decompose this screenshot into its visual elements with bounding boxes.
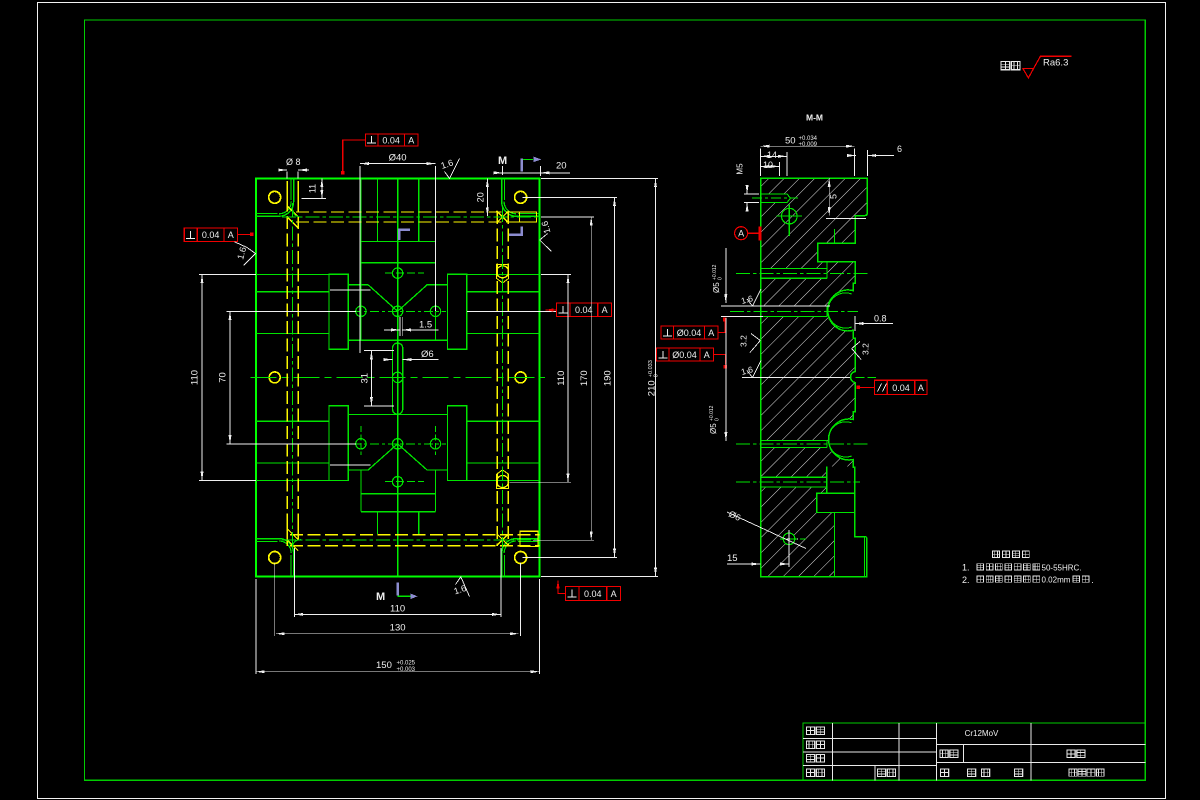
top pocket outline	[361, 178, 436, 340]
dim 110 right	[510, 274, 572, 482]
corner block inner doubles	[256, 178, 540, 576]
svg-text:Ø 8: Ø 8	[286, 157, 301, 167]
dim M5	[736, 163, 760, 211]
svg-text:1.5: 1.5	[419, 319, 432, 330]
svg-text:Ø6: Ø6	[421, 349, 434, 360]
dim 110 left	[190, 274, 256, 480]
center circle on capsule	[392, 372, 402, 382]
horizontal center line	[251, 376, 546, 378]
center slot capsule	[393, 343, 403, 414]
corner hole TL	[269, 191, 281, 203]
svg-text:50-55HRC.: 50-55HRC.	[1042, 563, 1082, 572]
svg-text:70: 70	[218, 372, 229, 383]
svg-text:+0.034: +0.034	[799, 136, 818, 142]
center line row1	[736, 272, 868, 274]
svg-text:0.8: 0.8	[874, 314, 887, 324]
svg-text:A: A	[408, 136, 414, 146]
svg-text:M: M	[376, 591, 385, 603]
dim Ø8 top	[279, 157, 310, 178]
svg-text:15: 15	[727, 553, 738, 564]
hole row4	[761, 477, 827, 487]
roughness 3.2 sec right	[852, 342, 871, 360]
corner block BL	[256, 539, 294, 577]
circle row upper	[352, 273, 446, 329]
bottom pocket circle	[392, 477, 402, 487]
svg-text:A: A	[228, 230, 234, 240]
title block frame	[803, 723, 1145, 780]
hole row1	[761, 262, 827, 279]
corner hole TR	[515, 191, 527, 203]
svg-text:150: 150	[376, 660, 392, 671]
center line row2	[730, 310, 858, 312]
roughness 1.6 sec row2	[721, 289, 830, 306]
roughness 1.6 top	[440, 158, 460, 179]
left bar	[329, 274, 348, 349]
purple elbow right mid	[509, 226, 523, 236]
unhatched zone right of notch2	[827, 466, 855, 493]
interior horizontals right side	[467, 274, 540, 480]
dim 31	[360, 351, 394, 407]
svg-text:Cr12MoV: Cr12MoV	[965, 729, 999, 738]
svg-text:5: 5	[829, 194, 839, 199]
roughness 1.6 bottom	[453, 577, 470, 597]
svg-text:190: 190	[602, 370, 613, 386]
corner hole BL	[269, 552, 281, 564]
dim 1.5	[384, 317, 439, 336]
leader Ø6	[727, 509, 806, 549]
svg-text:M: M	[498, 155, 507, 167]
svg-text:3.2: 3.2	[739, 335, 749, 347]
svg-text:0.04: 0.04	[584, 589, 602, 599]
M5 center line	[752, 197, 798, 199]
dim 0.8	[855, 314, 893, 332]
svg-text:Ø5: Ø5	[709, 423, 718, 434]
gdt box right dia 1	[661, 326, 718, 339]
roughness 3.2 sec left	[739, 334, 761, 353]
svg-text:210: 210	[647, 380, 658, 396]
dim 50 top section	[761, 136, 855, 177]
datum A	[735, 227, 762, 241]
gdt box top	[341, 134, 418, 175]
svg-text:+0.009: +0.009	[799, 142, 818, 148]
svg-text:31: 31	[360, 373, 371, 384]
svg-text:0: 0	[654, 374, 660, 377]
hole M5	[761, 194, 791, 203]
roughness 1.6 right edge	[540, 220, 553, 252]
corner block TL	[256, 178, 294, 216]
svg-text:1.: 1.	[962, 563, 970, 573]
roughness 1.6 left edge	[235, 242, 256, 266]
nipple lower	[497, 476, 509, 488]
svg-text:2.: 2.	[962, 575, 970, 585]
svg-text:20: 20	[556, 161, 567, 172]
tech notes	[962, 551, 1094, 585]
junction X marks	[287, 206, 509, 551]
vertical center line	[397, 178, 399, 576]
dim Ø40	[360, 153, 435, 354]
gdt box right	[546, 303, 612, 316]
red leader to section box2	[714, 355, 726, 365]
title block labels	[807, 727, 1105, 777]
svg-text:+0.025: +0.025	[397, 661, 416, 667]
svg-text:50: 50	[785, 136, 796, 147]
channel centerline elbows	[293, 208, 301, 548]
section outline	[761, 178, 868, 577]
bottom pocket	[361, 444, 436, 534]
dim 11	[301, 178, 326, 198]
gdt box right dia 2	[657, 348, 714, 361]
flange slot boundary	[833, 229, 835, 243]
svg-text:.: .	[1091, 575, 1093, 585]
svg-text:110: 110	[190, 370, 201, 385]
surface note top right	[1001, 56, 1072, 78]
svg-text:130: 130	[390, 623, 406, 634]
dim 10 section	[761, 160, 780, 176]
svg-text:0.04: 0.04	[575, 305, 593, 315]
side hole right on centerline	[515, 372, 526, 383]
roughness 1.6 sec slot	[740, 361, 850, 378]
left bar lower	[329, 406, 348, 481]
dim Ø6 slot	[384, 349, 439, 360]
dim Ø5 lower	[709, 318, 726, 441]
svg-text:0.04: 0.04	[382, 136, 400, 146]
ejector hole circle	[780, 530, 806, 548]
svg-text:0.04: 0.04	[892, 383, 910, 393]
svg-text:A: A	[738, 229, 744, 239]
corner block BR	[502, 539, 540, 577]
dim 110 bottom	[294, 548, 501, 617]
corner hole BR	[515, 552, 527, 564]
channel plug top right	[519, 212, 536, 222]
slot center dash right	[856, 377, 876, 379]
cooling channel top pair (yellow dashed)	[287, 181, 539, 546]
gdt box left	[184, 228, 253, 242]
tab inner line	[864, 537, 866, 577]
notch inner arcs	[828, 293, 852, 457]
dim 15	[727, 546, 789, 567]
white ext center row right	[467, 310, 556, 312]
right bar lower	[448, 406, 467, 481]
dim 190 right	[523, 197, 618, 557]
svg-text:0: 0	[718, 277, 724, 280]
unhatched zone bottom right	[835, 513, 867, 577]
title block grid	[803, 723, 1145, 780]
plate outline	[256, 178, 540, 576]
svg-text:10: 10	[763, 160, 773, 170]
svg-text:0.04: 0.04	[202, 230, 220, 240]
gdt box bottom right	[558, 581, 621, 601]
svg-text:0.02mm: 0.02mm	[1042, 576, 1071, 585]
circle row lower	[352, 426, 446, 455]
right bar	[448, 274, 467, 349]
svg-text:0: 0	[715, 418, 721, 421]
dim 6 section	[849, 144, 902, 176]
section mark M top	[498, 155, 541, 171]
hole row3	[761, 440, 827, 447]
svg-text:Ø0.04: Ø0.04	[677, 328, 702, 338]
dim 150 bottom	[256, 579, 540, 674]
svg-text:170: 170	[579, 370, 590, 386]
target point circle	[777, 205, 803, 237]
dim 5 section step	[826, 178, 866, 218]
center line row3	[736, 443, 868, 445]
svg-text:11: 11	[308, 184, 318, 193]
svg-text:Ø0.04: Ø0.04	[672, 350, 697, 360]
hole row2	[761, 306, 827, 316]
channel plug bottom right	[520, 531, 538, 546]
nipple upper	[497, 266, 509, 278]
svg-text:A: A	[704, 350, 710, 360]
svg-text:Ø40: Ø40	[389, 153, 407, 164]
dim 130 bottom	[275, 563, 521, 636]
purple elbow upper mid	[398, 229, 410, 241]
foot rect	[817, 493, 855, 512]
channel center lines (green dash-dot)	[282, 203, 540, 552]
bottom-right boundary	[834, 513, 836, 577]
side hole left on centerline	[269, 372, 280, 383]
svg-text:110: 110	[390, 604, 405, 615]
svg-text:20: 20	[476, 192, 486, 202]
interior horizontals left side	[256, 274, 329, 480]
solid channel segments in corner blocks	[287, 181, 298, 546]
top pocket circle	[392, 268, 402, 278]
center line row4	[736, 481, 860, 483]
svg-text:A: A	[918, 383, 924, 393]
svg-text:+0.003: +0.003	[397, 667, 416, 673]
dim 14 section	[761, 150, 787, 176]
section body hatched	[761, 178, 868, 577]
svg-text:3.2: 3.2	[861, 343, 871, 355]
dim 20 top horizontal	[494, 161, 570, 177]
svg-text:A: A	[708, 328, 714, 338]
dim Ø5 upper	[712, 248, 763, 316]
mid horizontals between bars	[348, 285, 447, 470]
svg-text:110: 110	[556, 371, 567, 386]
dim 70 left	[218, 311, 357, 444]
svg-text:6: 6	[897, 144, 902, 154]
dim 170 right	[533, 217, 594, 540]
gdt box parallel	[857, 380, 928, 394]
ext segments near bars	[330, 290, 371, 465]
notch2 right boundary	[826, 466, 828, 493]
svg-text:Ø5: Ø5	[712, 282, 721, 293]
section mark M bottom	[376, 583, 418, 603]
svg-text:14: 14	[767, 150, 777, 160]
svg-text:Ra6.3: Ra6.3	[1043, 58, 1068, 69]
svg-text:A: A	[602, 305, 608, 315]
red leader to section box1	[718, 321, 725, 333]
svg-text:M-M: M-M	[806, 113, 823, 123]
svg-text:A: A	[611, 589, 617, 599]
corner block TR	[502, 178, 540, 216]
dim 210 right	[541, 178, 660, 576]
dim 20 vertical block	[476, 178, 488, 216]
svg-text:M5: M5	[736, 163, 745, 175]
